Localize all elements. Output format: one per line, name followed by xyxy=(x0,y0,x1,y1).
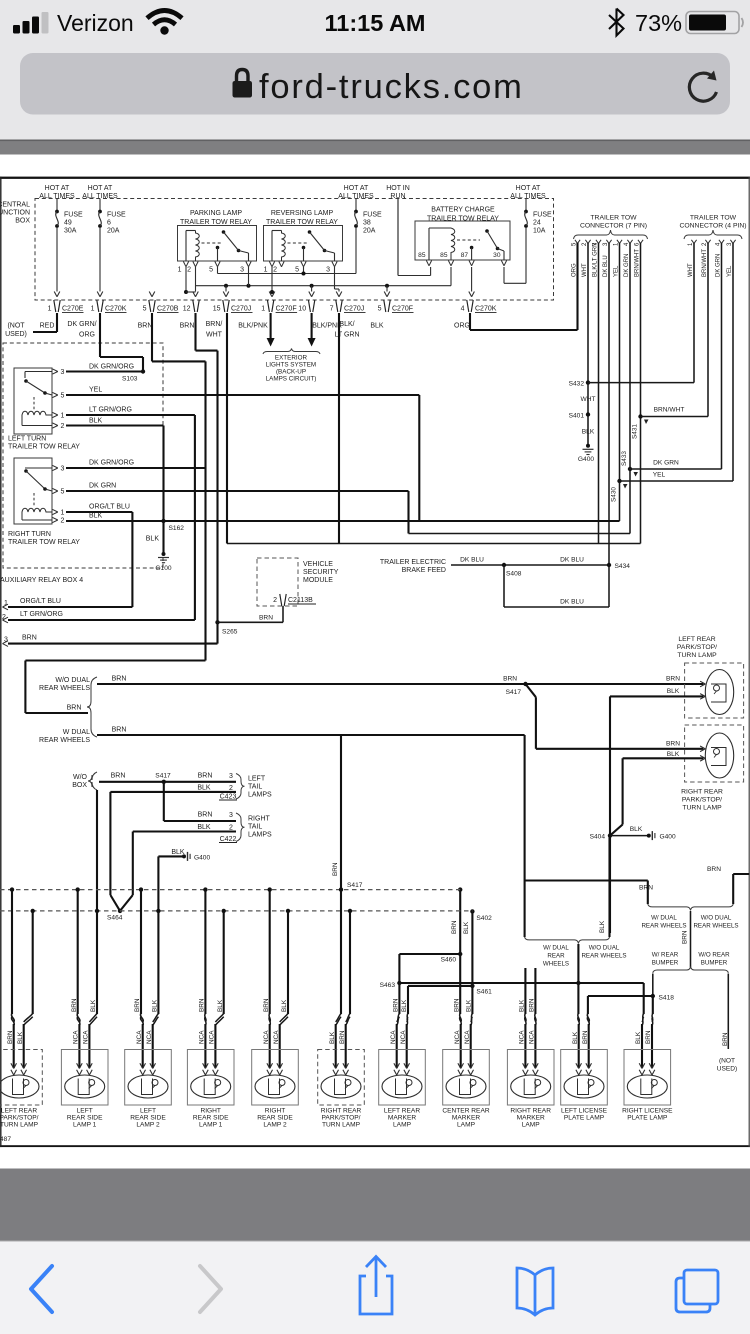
svg-text:15: 15 xyxy=(213,306,221,313)
svg-text:S464: S464 xyxy=(107,915,123,922)
svg-text:ORG: ORG xyxy=(454,323,470,330)
svg-text:1: 1 xyxy=(61,413,65,420)
svg-text:BRN: BRN xyxy=(7,1030,14,1044)
svg-text:5: 5 xyxy=(61,489,65,496)
svg-text:ALL TIMES: ALL TIMES xyxy=(338,193,374,200)
svg-text:BRN: BRN xyxy=(722,1032,729,1046)
svg-text:LAMP: LAMP xyxy=(457,1122,476,1129)
svg-text:3: 3 xyxy=(326,267,330,274)
svg-text:W/O: W/O xyxy=(73,774,88,781)
svg-text:(BACK-UP: (BACK-UP xyxy=(276,369,306,376)
svg-text:REAR: REAR xyxy=(547,953,565,960)
svg-text:PARK/STOP/: PARK/STOP/ xyxy=(677,644,717,651)
svg-text:(NOT: (NOT xyxy=(719,1058,735,1065)
svg-text:LAMPS CIRCUIT): LAMPS CIRCUIT) xyxy=(266,376,317,383)
svg-text:W/O DUAL: W/O DUAL xyxy=(589,945,620,952)
svg-text:BLK: BLK xyxy=(519,999,526,1012)
svg-text:C270B: C270B xyxy=(157,306,179,313)
svg-text:CONNECTOR (4 PIN): CONNECTOR (4 PIN) xyxy=(679,223,746,230)
svg-text:G400: G400 xyxy=(578,456,594,463)
svg-text:NCA: NCA xyxy=(73,1030,80,1044)
svg-text:C270F: C270F xyxy=(276,306,297,313)
svg-text:ORG/LT BLU: ORG/LT BLU xyxy=(20,598,61,605)
svg-text:BRN: BRN xyxy=(112,676,127,683)
svg-text:JUNCTION: JUNCTION xyxy=(0,210,30,217)
svg-text:YEL: YEL xyxy=(614,265,620,277)
svg-text:S432: S432 xyxy=(569,381,585,388)
svg-text:HOT AT: HOT AT xyxy=(516,185,541,192)
svg-text:PARK/STOP/: PARK/STOP/ xyxy=(322,1115,361,1122)
svg-text:CONNECTOR (7 PIN): CONNECTOR (7 PIN) xyxy=(580,223,647,230)
svg-text:S162: S162 xyxy=(169,525,185,532)
svg-text:LAMPS: LAMPS xyxy=(248,832,272,839)
svg-text:HOT AT: HOT AT xyxy=(344,185,369,192)
svg-text:W/O REAR: W/O REAR xyxy=(698,952,730,959)
svg-text:BRN: BRN xyxy=(582,1030,589,1044)
svg-text:BLK: BLK xyxy=(197,784,211,791)
svg-text:DK GRN/ORG: DK GRN/ORG xyxy=(89,460,134,467)
svg-text:BRN: BRN xyxy=(138,323,153,330)
svg-text:REAR SIDE: REAR SIDE xyxy=(130,1115,166,1122)
svg-text:NCA: NCA xyxy=(454,1030,461,1044)
svg-text:S431: S431 xyxy=(632,424,639,439)
svg-text:W/O DUAL: W/O DUAL xyxy=(701,915,732,922)
svg-text:BRN: BRN xyxy=(111,772,126,779)
svg-text:RIGHT LICENSE: RIGHT LICENSE xyxy=(622,1108,673,1115)
svg-text:2: 2 xyxy=(61,423,65,430)
svg-text:LEFT TURN: LEFT TURN xyxy=(8,436,46,443)
svg-text:BRN: BRN xyxy=(263,998,270,1012)
svg-text:C270E: C270E xyxy=(62,306,84,313)
svg-text:HOT AT: HOT AT xyxy=(88,185,113,192)
svg-text:S402: S402 xyxy=(476,915,492,922)
svg-text:NCA: NCA xyxy=(529,1030,536,1044)
svg-text:30A: 30A xyxy=(64,228,77,235)
svg-text:REAR SIDE: REAR SIDE xyxy=(193,1115,229,1122)
svg-text:BLK: BLK xyxy=(667,751,680,758)
svg-text:TAIL: TAIL xyxy=(248,824,262,831)
svg-text:S418: S418 xyxy=(659,995,675,1002)
svg-text:BRN: BRN xyxy=(198,772,213,779)
svg-text:20A: 20A xyxy=(107,228,120,235)
svg-text:NCA: NCA xyxy=(400,1030,407,1044)
svg-text:BLK: BLK xyxy=(89,513,103,520)
svg-text:PLATE LAMP: PLATE LAMP xyxy=(627,1115,668,1122)
svg-text:S265: S265 xyxy=(222,629,238,636)
svg-text:RIGHT REAR: RIGHT REAR xyxy=(681,789,723,796)
svg-text:C423: C423 xyxy=(220,793,237,800)
svg-text:BLK: BLK xyxy=(89,418,103,425)
svg-text:BRN: BRN xyxy=(666,675,680,682)
svg-text:LEFT LICENSE: LEFT LICENSE xyxy=(561,1108,608,1115)
svg-text:BLK: BLK xyxy=(667,688,680,695)
svg-text:ORG: ORG xyxy=(79,332,95,339)
svg-text:USED): USED) xyxy=(717,1066,738,1073)
svg-text:REAR WHEELS: REAR WHEELS xyxy=(641,923,686,930)
svg-text:LAMP: LAMP xyxy=(522,1122,541,1129)
svg-text:49: 49 xyxy=(64,220,72,227)
svg-text:BRN: BRN xyxy=(645,1030,652,1044)
svg-text:LEFT REAR: LEFT REAR xyxy=(384,1108,420,1115)
svg-text:RED: RED xyxy=(40,323,55,330)
svg-text:TURN LAMP: TURN LAMP xyxy=(682,805,722,812)
svg-text:BLK: BLK xyxy=(599,920,606,933)
svg-text:TRAILER TOW RELAY: TRAILER TOW RELAY xyxy=(180,219,252,226)
svg-text:1: 1 xyxy=(61,510,65,517)
svg-text:BRN: BRN xyxy=(71,998,78,1012)
svg-text:BRN/WHT: BRN/WHT xyxy=(702,249,708,277)
svg-text:TRAILER TOW: TRAILER TOW xyxy=(690,214,737,221)
svg-text:ALL TIMES: ALL TIMES xyxy=(82,193,118,200)
svg-text:CENTER REAR: CENTER REAR xyxy=(442,1108,489,1115)
svg-text:C2113B: C2113B xyxy=(288,597,313,604)
svg-text:BLK: BLK xyxy=(17,1031,24,1044)
svg-text:NCA: NCA xyxy=(519,1030,526,1044)
svg-text:1: 1 xyxy=(91,306,95,313)
svg-text:S430: S430 xyxy=(611,487,618,502)
svg-text:85: 85 xyxy=(418,252,426,259)
svg-text:S417: S417 xyxy=(347,882,363,889)
svg-text:RUN: RUN xyxy=(390,193,405,200)
svg-text:REAR WHEELS: REAR WHEELS xyxy=(693,923,738,930)
svg-text:BLK: BLK xyxy=(635,1031,642,1044)
svg-text:7: 7 xyxy=(330,306,334,313)
svg-text:BRN: BRN xyxy=(339,1030,346,1044)
svg-text:5: 5 xyxy=(143,306,147,313)
svg-text:BLK: BLK xyxy=(329,1031,336,1044)
svg-text:BUMPER: BUMPER xyxy=(701,960,728,967)
svg-text:2: 2 xyxy=(229,785,233,792)
svg-text:DK BLU: DK BLU xyxy=(560,557,584,564)
svg-text:W/ DUAL: W/ DUAL xyxy=(543,945,569,952)
svg-text:G400: G400 xyxy=(660,834,676,841)
svg-text:DK GRN/ORG: DK GRN/ORG xyxy=(89,364,134,371)
svg-text:1: 1 xyxy=(178,267,182,274)
svg-text:BLK: BLK xyxy=(572,1031,579,1044)
svg-text:MARKER: MARKER xyxy=(517,1115,545,1122)
svg-text:DK BLU: DK BLU xyxy=(460,557,484,564)
svg-text:LAMPS: LAMPS xyxy=(248,792,272,799)
svg-text:PARKING LAMP: PARKING LAMP xyxy=(190,210,242,217)
svg-text:S460: S460 xyxy=(441,957,457,964)
svg-text:3: 3 xyxy=(61,369,65,376)
svg-text:Verizon: Verizon xyxy=(57,10,134,36)
svg-text:(NOT: (NOT xyxy=(7,323,25,330)
svg-text:BLK: BLK xyxy=(146,536,160,543)
svg-text:EXTERIOR: EXTERIOR xyxy=(275,355,308,362)
svg-text:RIGHT REAR: RIGHT REAR xyxy=(510,1108,551,1115)
svg-text:DK GRN: DK GRN xyxy=(89,483,116,490)
svg-text:S417: S417 xyxy=(506,689,522,696)
svg-text:WHT: WHT xyxy=(688,263,694,277)
svg-text:FUSE: FUSE xyxy=(107,212,126,219)
svg-text:W/O DUAL: W/O DUAL xyxy=(55,677,90,684)
svg-text:S103: S103 xyxy=(122,376,138,383)
svg-text:BRN/: BRN/ xyxy=(206,321,223,328)
svg-text:BRN: BRN xyxy=(199,998,206,1012)
svg-text:BRN: BRN xyxy=(682,930,689,944)
svg-text:10: 10 xyxy=(298,306,306,313)
svg-text:1: 1 xyxy=(261,306,265,313)
svg-text:TURN LAMP: TURN LAMP xyxy=(322,1122,361,1129)
svg-text:BLK: BLK xyxy=(466,999,473,1012)
svg-text:ORG/LT BLU: ORG/LT BLU xyxy=(89,504,130,511)
svg-text:NCA: NCA xyxy=(464,1030,471,1044)
svg-text:73%: 73% xyxy=(635,10,682,36)
svg-text:BRN: BRN xyxy=(451,920,458,934)
svg-text:BLK: BLK xyxy=(401,999,408,1012)
svg-text:PLATE LAMP: PLATE LAMP xyxy=(564,1115,605,1122)
svg-text:C270J: C270J xyxy=(231,306,251,313)
svg-text:1: 1 xyxy=(48,306,52,313)
svg-text:W DUAL: W DUAL xyxy=(63,729,90,736)
svg-text:NCA: NCA xyxy=(390,1030,397,1044)
svg-text:DK GRN: DK GRN xyxy=(624,254,630,277)
svg-text:BRN: BRN xyxy=(198,812,213,819)
svg-text:85: 85 xyxy=(440,252,448,259)
svg-text:RIGHT: RIGHT xyxy=(200,1108,221,1115)
svg-text:12: 12 xyxy=(183,306,191,313)
svg-text:RIGHT REAR: RIGHT REAR xyxy=(321,1108,362,1115)
svg-text:S404: S404 xyxy=(590,834,606,841)
svg-text:SECURITY: SECURITY xyxy=(303,569,339,576)
svg-text:MARKER: MARKER xyxy=(452,1115,480,1122)
svg-text:WHT: WHT xyxy=(582,263,588,277)
svg-text:BLK: BLK xyxy=(281,999,288,1012)
svg-text:WHEELS: WHEELS xyxy=(543,961,569,968)
svg-text:YEL: YEL xyxy=(89,387,102,394)
svg-text:REAR WHEELS: REAR WHEELS xyxy=(39,737,90,744)
svg-text:TRAILER ELECTRIC: TRAILER ELECTRIC xyxy=(380,559,446,566)
svg-text:S434: S434 xyxy=(615,563,631,570)
svg-text:S417: S417 xyxy=(155,772,171,779)
svg-text:G400: G400 xyxy=(194,854,210,861)
svg-text:C270J: C270J xyxy=(344,306,364,313)
svg-text:BRN: BRN xyxy=(503,675,517,682)
svg-text:YEL: YEL xyxy=(653,472,666,479)
svg-text:TRAILER TOW RELAY: TRAILER TOW RELAY xyxy=(8,539,80,546)
svg-text:YEL: YEL xyxy=(727,265,733,277)
svg-text:BRN: BRN xyxy=(259,615,273,622)
svg-text:BLK: BLK xyxy=(463,921,470,934)
svg-text:LAMP 2: LAMP 2 xyxy=(136,1122,160,1129)
svg-text:REAR SIDE: REAR SIDE xyxy=(67,1115,103,1122)
svg-text:2: 2 xyxy=(229,825,233,832)
svg-text:BRN: BRN xyxy=(332,862,339,876)
svg-text:BLK/: BLK/ xyxy=(339,321,354,328)
svg-text:REAR SIDE: REAR SIDE xyxy=(257,1115,293,1122)
svg-text:WHT: WHT xyxy=(206,332,223,339)
svg-text:LEFT: LEFT xyxy=(248,776,266,783)
svg-text:BATTERY CHARGE: BATTERY CHARGE xyxy=(431,207,495,214)
svg-text:LT GRN/ORG: LT GRN/ORG xyxy=(89,407,132,414)
svg-text:REAR WHEELS: REAR WHEELS xyxy=(39,685,90,692)
svg-text:11:15 AM: 11:15 AM xyxy=(324,10,425,36)
svg-text:C270K: C270K xyxy=(105,306,127,313)
svg-text:6: 6 xyxy=(107,220,111,227)
svg-text:2: 2 xyxy=(273,267,277,274)
svg-text:1: 1 xyxy=(264,267,268,274)
svg-text:ALL TIMES: ALL TIMES xyxy=(39,193,75,200)
svg-text:NCA: NCA xyxy=(209,1030,216,1044)
svg-text:2: 2 xyxy=(187,267,191,274)
svg-text:30: 30 xyxy=(493,252,501,259)
svg-text:5: 5 xyxy=(295,267,299,274)
svg-text:BRN: BRN xyxy=(134,998,141,1012)
svg-text:BRN: BRN xyxy=(393,998,400,1012)
svg-text:ford-trucks.com: ford-trucks.com xyxy=(259,68,524,106)
svg-text:LEFT: LEFT xyxy=(77,1108,93,1115)
svg-text:BRN/WHT: BRN/WHT xyxy=(654,407,685,414)
svg-text:TRAILER TOW RELAY: TRAILER TOW RELAY xyxy=(266,219,338,226)
svg-text:NCA: NCA xyxy=(263,1030,270,1044)
svg-text:BRN: BRN xyxy=(180,323,195,330)
svg-text:LAMP 1: LAMP 1 xyxy=(199,1122,223,1129)
svg-text:BRN: BRN xyxy=(453,998,460,1012)
svg-text:5: 5 xyxy=(378,306,382,313)
svg-text:C270K: C270K xyxy=(475,306,497,313)
svg-text:DK BLU: DK BLU xyxy=(603,255,609,277)
svg-text:FUSE: FUSE xyxy=(363,212,382,219)
svg-text:LEFT REAR: LEFT REAR xyxy=(678,636,715,643)
svg-text:ALL TIMES: ALL TIMES xyxy=(510,193,546,200)
svg-text:20A: 20A xyxy=(363,228,376,235)
svg-text:DK BLU: DK BLU xyxy=(560,599,584,606)
svg-text:BRN/WHT: BRN/WHT xyxy=(635,249,641,277)
svg-text:S408: S408 xyxy=(506,571,522,578)
svg-text:3: 3 xyxy=(240,267,244,274)
svg-text:BRN: BRN xyxy=(22,635,37,642)
svg-text:C270F: C270F xyxy=(392,306,413,313)
svg-text:USED): USED) xyxy=(5,331,27,338)
svg-text:TAIL: TAIL xyxy=(248,784,262,791)
svg-text:BRN: BRN xyxy=(112,727,127,734)
svg-text:BRN: BRN xyxy=(529,998,536,1012)
svg-text:S461: S461 xyxy=(476,989,492,996)
svg-text:NCA: NCA xyxy=(83,1030,90,1044)
svg-text:3: 3 xyxy=(61,466,65,473)
svg-text:RIGHT: RIGHT xyxy=(248,816,271,823)
svg-text:BLK: BLK xyxy=(90,999,97,1012)
svg-text:5: 5 xyxy=(61,393,65,400)
svg-text:LAMP 2: LAMP 2 xyxy=(263,1122,287,1129)
svg-text:HOT AT: HOT AT xyxy=(45,185,70,192)
svg-text:BLK: BLK xyxy=(370,323,384,330)
svg-text:REAR WHEELS: REAR WHEELS xyxy=(581,953,626,960)
svg-text:MODULE: MODULE xyxy=(303,577,333,584)
svg-text:FUSE: FUSE xyxy=(64,212,83,219)
svg-text:TRAILER TOW: TRAILER TOW xyxy=(590,214,637,221)
svg-text:VEHICLE: VEHICLE xyxy=(303,561,333,568)
svg-text:DK GRN: DK GRN xyxy=(716,254,722,277)
svg-text:2: 2 xyxy=(61,518,65,525)
svg-text:BRAKE FEED: BRAKE FEED xyxy=(402,567,446,574)
svg-text:BLK/PNK: BLK/PNK xyxy=(238,323,268,330)
svg-text:LAMP: LAMP xyxy=(393,1122,412,1129)
svg-text:C422: C422 xyxy=(220,836,237,843)
svg-text:3: 3 xyxy=(229,773,233,780)
svg-text:BLK: BLK xyxy=(630,826,643,833)
svg-text:HOT IN: HOT IN xyxy=(386,185,410,192)
svg-text:3: 3 xyxy=(229,812,233,819)
svg-text:LEFT REAR: LEFT REAR xyxy=(1,1108,37,1115)
svg-text:MARKER: MARKER xyxy=(388,1115,416,1122)
svg-text:LEFT: LEFT xyxy=(140,1108,156,1115)
svg-text:REVERSING LAMP: REVERSING LAMP xyxy=(271,210,334,217)
svg-text:RIGHT TURN: RIGHT TURN xyxy=(8,531,51,538)
svg-text:LIGHTS SYSTEM: LIGHTS SYSTEM xyxy=(266,362,316,369)
svg-text:BRN: BRN xyxy=(707,866,721,873)
svg-text:BUMPER: BUMPER xyxy=(652,960,679,967)
svg-text:DK GRN: DK GRN xyxy=(653,460,679,467)
svg-text:BLK: BLK xyxy=(152,999,159,1012)
svg-text:LT GRN/ORG: LT GRN/ORG xyxy=(20,611,63,618)
svg-text:W/ REAR: W/ REAR xyxy=(652,952,679,959)
svg-text:BLK/LT GRN: BLK/LT GRN xyxy=(593,243,599,277)
svg-text:NCA: NCA xyxy=(136,1030,143,1044)
svg-text:CENTRAL: CENTRAL xyxy=(0,202,30,209)
svg-text:G100: G100 xyxy=(155,565,171,572)
svg-text:BOX: BOX xyxy=(15,218,30,225)
svg-text:BLK/PNK: BLK/PNK xyxy=(312,323,342,330)
svg-text:NCA: NCA xyxy=(273,1030,280,1044)
svg-text:WHT: WHT xyxy=(580,396,595,403)
svg-text:RIGHT: RIGHT xyxy=(265,1108,286,1115)
svg-text:24: 24 xyxy=(533,220,541,227)
svg-text:TURN LAMP: TURN LAMP xyxy=(677,652,717,659)
svg-text:AUXILIARY RELAY BOX 4: AUXILIARY RELAY BOX 4 xyxy=(0,577,83,584)
svg-text:BLK: BLK xyxy=(582,429,595,436)
svg-text:W/ DUAL: W/ DUAL xyxy=(651,915,677,922)
svg-text:PARK/STOP/: PARK/STOP/ xyxy=(0,1115,39,1122)
svg-text:2: 2 xyxy=(273,597,277,604)
svg-text:487: 487 xyxy=(0,1136,11,1143)
svg-text:PARK/STOP/: PARK/STOP/ xyxy=(682,797,722,804)
svg-text:87: 87 xyxy=(461,252,469,259)
svg-text:BLK: BLK xyxy=(197,824,211,831)
svg-text:BLK: BLK xyxy=(217,999,224,1012)
svg-text:S401: S401 xyxy=(569,413,585,420)
svg-text:10A: 10A xyxy=(533,228,546,235)
svg-text:BRN: BRN xyxy=(67,705,82,712)
svg-text:38: 38 xyxy=(363,220,371,227)
svg-text:4: 4 xyxy=(461,306,465,313)
svg-text:LAMP 1: LAMP 1 xyxy=(73,1122,97,1129)
svg-text:BOX: BOX xyxy=(72,782,87,789)
svg-text:S433: S433 xyxy=(621,451,628,466)
svg-text:TURN LAMP: TURN LAMP xyxy=(0,1122,39,1129)
svg-text:NCA: NCA xyxy=(199,1030,206,1044)
svg-text:DK GRN/: DK GRN/ xyxy=(67,321,96,328)
svg-text:NCA: NCA xyxy=(146,1030,153,1044)
svg-text:TRAILER TOW RELAY: TRAILER TOW RELAY xyxy=(8,444,80,451)
svg-text:5: 5 xyxy=(209,267,213,274)
svg-text:FUSE: FUSE xyxy=(533,212,552,219)
svg-text:S463: S463 xyxy=(380,982,396,989)
svg-text:BRN: BRN xyxy=(666,740,680,747)
svg-text:BRN: BRN xyxy=(639,885,653,892)
